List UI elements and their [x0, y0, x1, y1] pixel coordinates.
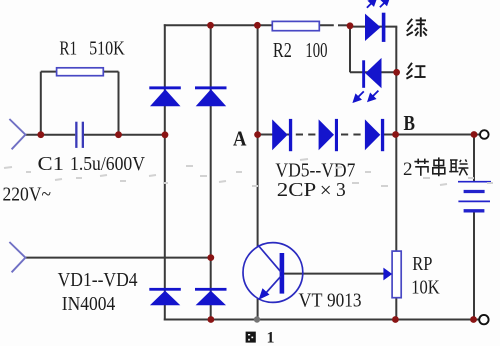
- svg-text:VD1--VD4: VD1--VD4: [58, 270, 138, 291]
- svg-text:220V~: 220V~: [3, 185, 52, 206]
- svg-text:VD5--VD7: VD5--VD7: [275, 160, 355, 181]
- svg-text:R2: R2: [273, 38, 292, 62]
- svg-text:VT: VT: [299, 291, 323, 312]
- svg-text:IN4004: IN4004: [62, 294, 116, 315]
- svg-text:510K: 510K: [89, 39, 125, 60]
- svg-text:1.5u/600V: 1.5u/600V: [70, 154, 145, 175]
- svg-text:10K: 10K: [411, 278, 439, 299]
- svg-text:R1: R1: [59, 39, 77, 60]
- svg-text:3: 3: [336, 180, 346, 201]
- svg-text:2CP: 2CP: [277, 180, 317, 201]
- svg-text:A: A: [233, 126, 247, 150]
- svg-text:C1: C1: [38, 154, 65, 175]
- svg-text:RP: RP: [412, 254, 432, 275]
- svg-text:100: 100: [305, 38, 327, 62]
- svg-text:9013: 9013: [327, 291, 362, 312]
- svg-text:B: B: [404, 111, 416, 135]
- svg-text:1: 1: [267, 330, 275, 346]
- svg-text:2: 2: [403, 159, 413, 180]
- svg-text:×: ×: [320, 178, 332, 202]
